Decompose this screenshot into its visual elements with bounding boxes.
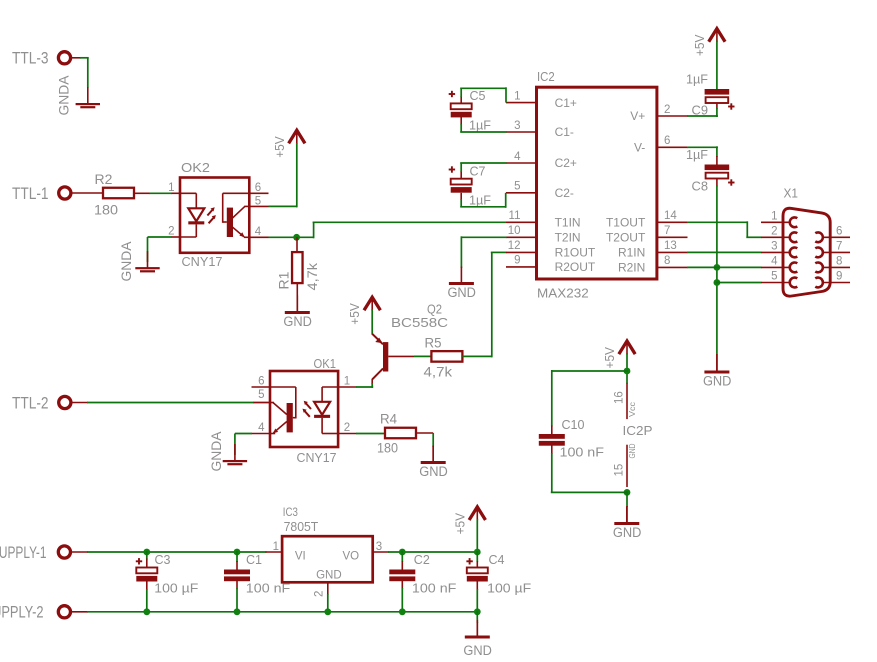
svg-text:+5V: +5V [602,347,617,369]
OK1 pin 1 [322,386,338,388]
svg-text:7805T: 7805T [284,519,319,534]
wire C7 bottom to IC2 pin5 [460,193,462,200]
wire C1 bottom [236,581,238,590]
svg-text:T1IN: T1IN [555,216,581,230]
wire rail2 to GND [476,611,478,623]
OK2 light arrows [207,209,213,216]
wire Q2 collector to OK1 pin1 [371,383,373,388]
capacitor C1 [224,570,250,575]
svg-text:9: 9 [836,271,842,283]
svg-text:4,7k: 4,7k [304,262,320,291]
wire X1 pin5 to GND rail [716,282,762,284]
svg-text:7: 7 [836,241,842,253]
svg-text:C2: C2 [414,552,430,567]
capacitor C8 [705,165,730,171]
svg-text:1: 1 [273,541,279,553]
IC2 pin 4 [506,162,537,164]
IC2 pin 9 [506,266,537,268]
svg-text:C2+: C2+ [555,156,577,170]
wire T1OUT to X1 pin2 [687,221,747,223]
IC2 pin 12 [506,251,537,253]
svg-text:GND: GND [703,374,732,389]
IC2 pin 13 [657,251,688,253]
wire C4 top [476,551,478,562]
svg-text:MAX232: MAX232 [537,286,589,301]
wire OK1 pin2 to R4 [356,433,385,435]
svg-text:R2OUT: R2OUT [555,260,596,274]
svg-text:OK2: OK2 [181,160,210,175]
svg-text:C4: C4 [489,552,505,567]
wire +5V to rail1 [476,519,478,553]
IC3 body [282,536,373,582]
supply +5V (OK2) [290,130,305,142]
svg-text:4: 4 [258,422,265,434]
svg-text:2: 2 [313,591,325,597]
svg-text:6: 6 [255,182,261,194]
svg-text:C1-: C1- [555,125,574,139]
svg-text:1µF: 1µF [686,147,708,162]
wire OK2 pin2 to GNDA [148,236,173,238]
svg-text:X1: X1 [784,186,799,201]
X1 body [783,208,830,296]
ground GND (R4) [432,446,434,463]
wire C5 bottom to IC2 pin3 [460,117,462,125]
wire C7 top to IC2 pin4 [460,171,462,179]
ground GNDA (TTL-3) [87,87,89,104]
svg-text:GNDA: GNDA [119,242,134,282]
wire C1 top [236,551,238,562]
junction rail1 C2 [399,549,406,556]
svg-text:GND: GND [628,443,637,458]
svg-text:T2IN: T2IN [555,231,581,245]
optocoupler OK2 [168,160,268,269]
OK2 pin 1 [172,192,182,194]
svg-text:TTL-1: TTL-1 [12,184,49,203]
X1 pin 7 [823,251,851,253]
svg-text:5: 5 [771,271,777,283]
wire C10 top [552,370,628,372]
ground GNDA (OK1) [234,444,236,461]
OK2 pin 6 stub [249,192,269,194]
X1 pin 4 [761,266,790,268]
transistor Q2 [372,302,448,385]
junction rail1 C1 [234,549,241,556]
port TTL-2 [59,396,71,408]
svg-text:100 µF: 100 µF [487,581,531,596]
svg-text:3: 3 [514,120,520,132]
wire Q2 base to R5 [414,355,431,357]
OK1 emitter to pin 4 [274,422,287,433]
port SUPPLY-1 [58,546,70,558]
ground GND (T2IN) [460,267,462,284]
svg-text:13: 13 [664,240,677,252]
port TTL-3 [58,52,70,64]
label C3 plus [136,560,142,562]
svg-text:R2IN: R2IN [618,261,645,275]
supply +5V (C4) [470,507,485,519]
svg-text:100 nF: 100 nF [412,581,457,596]
svg-text:1: 1 [344,376,350,388]
label C9 plus [728,106,734,108]
OK2 LED anode triangle [188,208,204,221]
IC3 pin 3 VO [373,551,389,553]
ground GND (X1) [716,355,718,372]
wire R4 to GND [416,432,433,434]
svg-text:6: 6 [258,376,264,388]
X1 pin 8 [823,266,851,268]
Q2 base lead [388,355,414,357]
regulator IC3 7805T [273,505,389,597]
wire +5V to IC2P pin16 [626,353,628,372]
svg-text:5: 5 [255,195,261,207]
capacitor C3 [136,568,157,574]
X1 pin 9 [823,282,851,284]
X1 pin 6 [823,236,851,238]
ground GND (R1) [296,296,298,313]
svg-text:1: 1 [771,210,777,222]
IC2 pin 10 [506,236,537,238]
svg-text:C1: C1 [246,552,262,567]
pin TTL-3 [70,57,81,59]
junction rail2 C1 [234,608,241,615]
svg-text:GND: GND [447,285,476,300]
svg-text:9: 9 [514,255,520,267]
capacitor C7 [451,179,472,185]
svg-text:BC558C: BC558C [391,315,448,330]
wire VO rail [388,551,477,553]
svg-text:5: 5 [258,389,264,401]
wire net GNDA3 [80,57,89,59]
IC2 pin 1 [506,102,537,104]
Q2 emitter lead [372,334,383,345]
capacitor C5 [451,103,472,109]
OK1 collector to pin 5 [273,403,287,415]
IC2 pin 11 [506,221,537,223]
wire R1IN to X1 pin3 [687,251,762,253]
svg-text:8: 8 [664,255,670,267]
svg-text:1µF: 1µF [469,118,491,133]
svg-text:3: 3 [771,241,777,253]
svg-text:T1OUT: T1OUT [606,216,646,230]
junction C8 rail / X1 pin5 [714,279,721,286]
svg-text:7: 7 [664,225,670,237]
ground GND (IC2P) [626,507,628,524]
wire IC2P pin15 to GND [626,491,628,507]
svg-text:16: 16 [614,391,626,404]
svg-text:V-: V- [634,141,645,155]
OK1 LED anode triangle [314,402,330,415]
IC2P pin 15 [626,445,628,487]
IC2 pin 6 [657,146,688,148]
port SUPPLY-2 [58,606,70,618]
capacitor C10 [539,434,565,439]
svg-text:100 nF: 100 nF [246,581,291,596]
resistor R4 [385,428,416,439]
junction rail1 C3 [143,549,150,556]
wire IC3 pin2 to rail2 [327,594,329,612]
resistor R5 [431,351,462,362]
Q2 collector lead [372,369,383,380]
IC IC2 MAX232 [506,69,688,301]
svg-text:180: 180 [94,202,118,218]
IC2P pin 16 [626,383,628,419]
svg-text:15: 15 [614,464,626,477]
OK2 LED cathode bar [188,221,204,224]
wire V- to C8 top [687,146,718,148]
IC IC2P power pins [614,383,653,487]
wire C8 bottom to GND rail [716,178,718,187]
svg-text:GND: GND [316,570,342,582]
OK1 base path to pin 6 [293,417,296,419]
svg-text:6: 6 [664,135,670,147]
svg-text:SUPPLY-2: SUPPLY-2 [0,603,44,622]
svg-text:1µF: 1µF [469,193,491,208]
svg-text:3: 3 [376,541,382,553]
svg-text:C5: C5 [470,88,486,103]
resistor R2 [103,188,134,199]
svg-text:4: 4 [771,256,778,268]
wire C10 bottom [551,445,553,454]
svg-text:C8: C8 [692,179,709,194]
svg-text:14: 14 [664,210,677,222]
svg-text:GND: GND [283,314,312,329]
capacitor C9 [705,89,730,95]
OK2 collector to pin 5 [232,206,245,218]
label C7 plus [449,169,455,171]
wire C9 bottom to V+ [716,103,718,110]
label C4 plus [466,560,472,562]
junction rail1 C4 [474,549,481,556]
svg-text:GND: GND [419,464,448,479]
svg-text:TTL-2: TTL-2 [12,393,49,412]
svg-text:100 nF: 100 nF [560,445,605,460]
svg-text:R5: R5 [425,335,442,351]
junction rail2 IC3 [324,608,331,615]
wire supply rail 1 [70,551,88,553]
svg-text:SUPPLY-1: SUPPLY-1 [0,543,47,562]
svg-text:C3: C3 [155,552,171,567]
IC2 pin 8 [657,266,688,268]
wire C3 top [146,551,148,560]
svg-text:C1+: C1+ [555,96,577,110]
X1 pin 3 [761,251,790,253]
IC2 pin 5 [506,192,537,194]
junction rail2 C2 [399,608,406,615]
IC2 pin 7 [657,236,688,238]
optocoupler OK2 body [180,178,249,253]
wire supply rail 2 [70,611,88,613]
svg-text:VO: VO [343,551,360,563]
junction IC2P gnd / C10 [624,489,631,496]
svg-text:C10: C10 [562,417,585,432]
OK1 pin 2 [321,418,323,434]
OK2 emitter to pin 4 [233,227,244,237]
svg-text:C2-: C2- [555,186,574,200]
svg-text:R1: R1 [276,271,292,289]
wire C2 top [401,551,403,562]
Q2 base bar [383,342,388,371]
svg-text:R4: R4 [380,411,397,427]
svg-text:R1IN: R1IN [618,246,645,260]
connector X1 [761,186,850,297]
wire R2 to OK2 pin1 [134,192,150,194]
svg-text:10: 10 [508,225,521,237]
svg-text:+5V: +5V [452,513,467,535]
OK1 phototransistor base bar [287,403,293,432]
svg-text:180: 180 [377,440,398,456]
wire OK1 pin4 to GNDA [235,433,252,435]
svg-text:4,7k: 4,7k [424,364,454,380]
svg-text:IC3: IC3 [283,505,298,519]
svg-text:IC2P: IC2P [623,423,653,438]
resistor R1 [292,252,303,283]
svg-text:CNY17: CNY17 [297,450,337,465]
capacitor C2 [389,570,415,575]
svg-text:+5V: +5V [272,136,287,158]
junction rail2 C4 [474,608,481,615]
supply +5V (Q2) [365,297,380,309]
OK1 LED cathode bar [314,415,330,418]
svg-text:GND: GND [463,643,492,658]
wire R1 to GND [296,283,298,312]
svg-text:2: 2 [771,225,777,237]
IC2 pin 2 [657,115,688,117]
label C5 plus [449,93,455,95]
optocoupler OK1 body [270,371,338,447]
svg-text:1: 1 [168,182,174,194]
svg-text:GNDA: GNDA [209,432,224,472]
svg-text:Vcc: Vcc [628,402,637,417]
OK2 base path to pin 6 [223,221,227,223]
svg-text:12: 12 [508,240,521,252]
svg-text:TTL-3: TTL-3 [12,49,49,68]
IC2 pin 3 [506,131,537,133]
X1 pin 2 [761,236,790,238]
OK2 phototransistor base bar [227,208,233,237]
ground GNDA (OK2) [147,251,149,268]
svg-text:T2OUT: T2OUT [606,231,646,245]
X1 pin 5 [761,282,790,284]
capacitor C4 [467,568,488,574]
OK1 light arrows [305,403,311,410]
junction C8 rail / R2IN [714,264,721,271]
svg-text:OK1: OK1 [314,356,337,371]
wire junction to R1 [296,237,298,252]
wire TTL-2 to OK1 pin5 [71,402,88,404]
svg-text:R1OUT: R1OUT [555,246,596,260]
svg-text:6: 6 [836,225,842,237]
junction IC2P vcc / C10 [624,368,631,375]
svg-text:CNY17: CNY17 [182,254,223,269]
svg-text:4: 4 [514,151,521,163]
svg-text:+5V: +5V [347,303,362,325]
svg-text:+5V: +5V [692,34,707,56]
X1 pin 1 [761,221,790,223]
label C8 plus [728,182,734,184]
svg-text:11: 11 [509,210,521,222]
svg-text:100 µF: 100 µF [154,581,198,596]
wire C3 bottom [146,581,148,590]
wire C2 bottom [401,581,403,590]
svg-text:C7: C7 [470,164,486,179]
svg-text:VI: VI [295,551,306,563]
OK1 pin 6 stub [252,386,271,388]
ground GND (C4) [476,620,478,637]
supply +5V (C9) [710,29,725,41]
IC2 body [537,87,657,279]
svg-text:2: 2 [168,226,174,238]
wire C4 bottom [476,581,478,590]
svg-text:1: 1 [514,90,520,102]
OK2 pin 2 [195,224,197,237]
wire +5V to Q2 emitter [371,309,373,335]
svg-text:2: 2 [344,422,350,434]
svg-text:GND: GND [613,525,642,540]
IC3 pin 2 GND [327,582,329,595]
svg-text:5: 5 [514,181,520,193]
svg-text:2: 2 [664,104,670,116]
wire T2IN to GND [461,236,506,238]
svg-text:4: 4 [255,226,262,238]
wire C5 top to IC2 pin1 [460,96,462,104]
svg-text:8: 8 [836,256,842,268]
svg-text:V+: V+ [630,109,645,123]
wire TTL-1 to R2 [71,192,103,194]
port TTL-1 [59,187,71,199]
svg-text:IC2: IC2 [537,69,555,84]
svg-text:GNDA: GNDA [57,76,72,116]
wire OK2 pin4 to T1IN [269,236,314,238]
IC2 pin 14 [657,221,688,223]
junction rail2 C3 [143,608,150,615]
svg-text:R2: R2 [95,171,113,187]
optocoupler OK1 [252,356,357,465]
wire R2IN to X1 pin4 [687,266,762,268]
junction OK2 pin4 / R1 [293,234,300,241]
wire R5 to R1OUT [462,355,491,357]
wire +5V to C9 [716,41,718,90]
svg-text:1µF: 1µF [686,72,708,87]
wire OK2 pin5 to +5V [269,205,297,207]
supply +5V (IC2P) [620,341,635,353]
